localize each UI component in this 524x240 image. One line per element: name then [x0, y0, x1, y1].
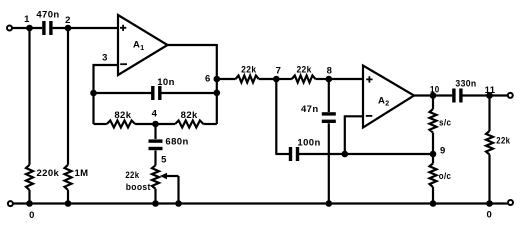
node 4: [152, 109, 159, 128]
op-amp A2: [363, 66, 414, 128]
wire A2 output: [414, 94, 452, 96]
resistor s/c: [430, 109, 452, 133]
resistor 220k: [26, 165, 60, 190]
wire 82k row left lead: [94, 123, 107, 125]
wire node 4 to 680n: [154, 124, 156, 139]
wire 82k left to node 4: [135, 123, 155, 125]
output terminal: [508, 93, 513, 98]
svg-text:2: 2: [385, 101, 389, 108]
svg-text:4: 4: [152, 109, 158, 120]
wire 680n to pot: [154, 151, 156, 166]
svg-text:680n: 680n: [165, 136, 188, 147]
node 6: [205, 74, 220, 85]
wire node7 to 22k second: [276, 78, 292, 80]
svg-text:9: 9: [440, 145, 446, 156]
svg-text:220k: 220k: [37, 168, 60, 179]
wire 1M to rail: [67, 190, 69, 204]
svg-text:11: 11: [485, 85, 496, 96]
svg-text:47n: 47n: [301, 104, 319, 115]
svg-text:2: 2: [65, 15, 71, 26]
junction 10n right: [214, 90, 221, 97]
wire A2 inverting input: [345, 115, 363, 154]
svg-text:22k: 22k: [496, 136, 510, 147]
capacitor 470n: [36, 9, 59, 35]
svg-text:A: A: [378, 95, 385, 106]
resistor 22k first: [236, 65, 259, 83]
svg-text:0: 0: [29, 210, 35, 221]
svg-text:o/c: o/c: [439, 171, 451, 182]
ground terminal right: [508, 200, 513, 205]
wire pot to rail: [154, 189, 156, 204]
resistor 82k right: [175, 110, 203, 128]
capacitor 10n: [151, 77, 175, 100]
node 2: [65, 15, 72, 31]
wire 330n to output: [463, 94, 509, 96]
wire 22k to node 8: [315, 78, 328, 80]
svg-text:s/c: s/c: [439, 117, 451, 128]
wire 10n right lead: [161, 92, 217, 94]
wire 220k to rail: [28, 190, 30, 204]
junction A2 inverting: [342, 151, 349, 158]
label 0 left: [29, 210, 35, 221]
svg-text:10n: 10n: [157, 77, 175, 88]
svg-text:7: 7: [276, 65, 282, 76]
junction 22k rail: [486, 200, 493, 207]
svg-text:8: 8: [327, 65, 333, 76]
ground rail: [13, 202, 508, 204]
resistor 22k second: [292, 65, 316, 83]
wire A1 inverting input: [93, 64, 119, 66]
svg-text:1: 1: [140, 45, 144, 52]
resistor 22k output: [486, 131, 511, 155]
svg-text:82k: 82k: [114, 110, 131, 121]
svg-text:470n: 470n: [36, 9, 59, 20]
wire 82k right lead: [203, 123, 216, 125]
resistor 1M: [65, 165, 89, 190]
junction 47n rail: [326, 200, 333, 207]
wire node 7 down: [275, 79, 289, 154]
node 11: [485, 85, 496, 99]
svg-text:1: 1: [24, 14, 30, 25]
wire node 8 down: [328, 79, 330, 112]
wire node 1 down: [28, 28, 30, 165]
svg-text:22k: 22k: [296, 65, 312, 76]
svg-text:A: A: [133, 40, 140, 51]
junction o/c rail: [430, 200, 437, 207]
junction wiper bottom: [175, 200, 182, 207]
wire node 10 down: [432, 96, 434, 110]
op-amp A1: [118, 15, 168, 75]
svg-text:1M: 1M: [75, 168, 89, 179]
label node 5: [161, 155, 167, 166]
svg-text:5: 5: [161, 155, 167, 166]
node 8: [326, 65, 333, 82]
resistor o/c: [430, 163, 452, 187]
junction 220k rail: [26, 200, 33, 207]
wire node 2 down: [67, 28, 69, 165]
wire node 8 to A2: [329, 78, 363, 80]
node 7: [273, 65, 281, 82]
svg-text:100n: 100n: [297, 137, 320, 148]
svg-text:0: 0: [487, 210, 493, 221]
wire input to node 1: [12, 27, 42, 29]
potentiometer 22k boost: [125, 165, 167, 193]
svg-text:3: 3: [102, 52, 108, 63]
svg-text:330n: 330n: [455, 79, 476, 90]
wire cap 470n to node 2: [53, 27, 118, 29]
wire 47n to rail: [328, 123, 330, 203]
node 9: [430, 145, 446, 157]
wire 10n left lead: [94, 92, 152, 94]
junction 10n left: [90, 90, 97, 97]
resistor 82k left: [107, 110, 135, 128]
wire node6 to 22k: [217, 78, 236, 80]
ground terminal left: [8, 201, 13, 206]
wire inverting column: [92, 64, 94, 124]
junction 1M rail: [65, 200, 72, 207]
svg-text:82k: 82k: [181, 110, 198, 121]
node 10: [430, 84, 440, 98]
label 0 right: [487, 210, 493, 221]
svg-text:10: 10: [430, 84, 440, 95]
wire 22k output to rail: [488, 155, 490, 204]
svg-text:22k: 22k: [241, 65, 257, 76]
wire wiper: [166, 176, 179, 204]
capacitor 330n: [452, 79, 476, 103]
wire 100n to node 9: [299, 153, 433, 155]
wire node 4 to 82k right: [156, 123, 176, 125]
svg-text:boost: boost: [126, 182, 151, 193]
wire s/c to node 9: [432, 133, 434, 154]
input terminal top-left: [7, 26, 12, 31]
svg-text:6: 6: [205, 74, 211, 85]
wire o/c to rail: [432, 187, 434, 204]
capacitor 47n: [301, 104, 336, 123]
label pin 3: [102, 52, 108, 63]
wire A1 output: [168, 44, 217, 124]
node 1: [24, 14, 33, 31]
svg-text:22k: 22k: [125, 170, 139, 181]
junction pot bottom: [152, 200, 159, 207]
capacitor 100n: [289, 137, 321, 161]
wire 22k to node 7: [259, 78, 277, 80]
capacitor 680n: [149, 136, 189, 150]
wire node 11 down: [488, 96, 490, 132]
wire node 9 down: [432, 154, 434, 163]
